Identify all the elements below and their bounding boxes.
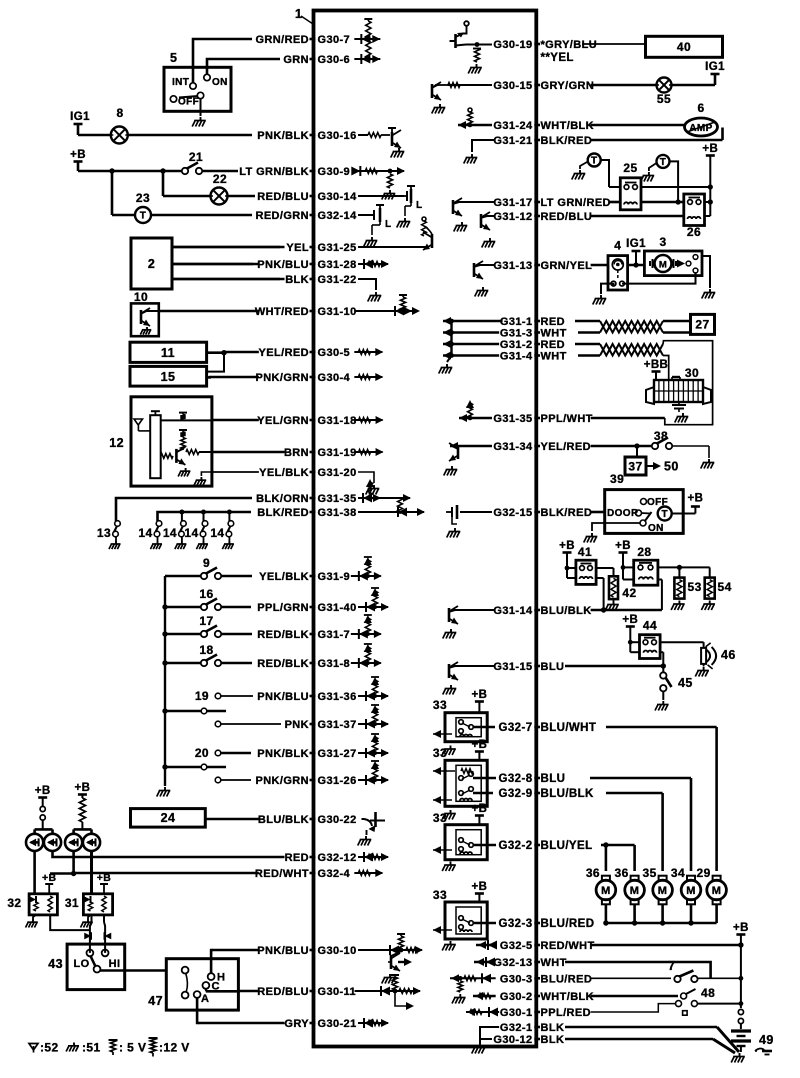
ground relay 31 [88, 915, 91, 919]
wire BLK G32-1 to battery ground [565, 1026, 717, 1029]
svg-text:WHT: WHT [541, 351, 567, 363]
wire loop to amplifier 6 [591, 139, 723, 142]
internal arrow resistor at G31-24 [458, 124, 492, 126]
svg-text:41: 41 [578, 545, 592, 559]
svg-text:4: 4 [614, 239, 621, 253]
connector box 27 [691, 314, 715, 334]
ground of unit 39 [592, 523, 605, 531]
svg-text:T: T [661, 509, 668, 520]
svg-text:G31-12: G31-12 [493, 211, 532, 223]
motor 36 [631, 876, 639, 881]
svg-text:G30-5: G30-5 [318, 347, 351, 359]
wire lamp a1 to relay 32 [33, 851, 36, 894]
svg-text:G31-14: G31-14 [493, 605, 533, 617]
svg-text:YEL/RED: YEL/RED [541, 441, 591, 453]
svg-text:G32-13: G32-13 [493, 957, 532, 969]
wire through lamp 55 to IG1 [591, 84, 657, 87]
svg-text:36: 36 [615, 866, 629, 880]
speaker 46 [701, 648, 706, 664]
sensor rod in unit 12 [150, 415, 161, 478]
legend 12V symbol [149, 1037, 158, 1039]
svg-text:M: M [630, 885, 640, 897]
internal ground at G31-20 [358, 472, 374, 483]
svg-text:G31-37: G31-37 [318, 719, 357, 731]
wire YEL/RED to pin G30-5 [224, 351, 259, 354]
svg-text:23: 23 [136, 191, 150, 205]
svg-text:GRN: GRN [283, 54, 309, 66]
svg-text:19: 19 [195, 689, 209, 703]
svg-text:PPL/RED: PPL/RED [541, 1007, 591, 1019]
wire BLK G30-12 to battery ground [565, 1038, 713, 1041]
internal diode resistors at G31-35 [358, 497, 410, 499]
twisted pair lower [575, 343, 600, 346]
svg-text:ON: ON [212, 77, 228, 88]
wire GRY to pin G30-21 [198, 1022, 285, 1025]
wire +B to switch 21 [78, 170, 182, 173]
switch 48 [681, 993, 687, 999]
svg-text:+B: +B [471, 881, 487, 893]
svg-text:WHT/BLK: WHT/BLK [541, 991, 595, 1003]
svg-text:G31-9: G31-9 [318, 571, 351, 583]
svg-text:G30-19: G30-19 [493, 39, 532, 51]
svg-text:RED/BLU: RED/BLU [257, 986, 309, 998]
wire YEL/GRN inside unit 12 [161, 419, 213, 421]
wire pin G32-7 BLU/WHT [473, 726, 495, 729]
diodes under relay 31 [91, 915, 93, 922]
relay unit 32 [29, 894, 57, 915]
switch 14 [181, 521, 187, 527]
svg-text:M: M [658, 885, 668, 897]
svg-text:RED/BLK: RED/BLK [257, 629, 309, 641]
relay 44 [640, 635, 661, 659]
svg-text:G31-21: G31-21 [493, 135, 532, 147]
svg-text:47: 47 [148, 994, 163, 1008]
svg-text:22: 22 [213, 172, 227, 186]
svg-text:BLU: BLU [541, 773, 566, 785]
inline connector at battery [738, 1009, 743, 1014]
svg-text:38: 38 [654, 429, 668, 443]
svg-text:G32-1: G32-1 [500, 1022, 533, 1034]
switch contact PNK/GRN [215, 777, 221, 783]
svg-text:RED/GRN: RED/GRN [255, 210, 309, 222]
wire 43 to 47 [100, 969, 166, 972]
motor 35 [659, 876, 667, 881]
svg-text:PNK/GRN: PNK/GRN [255, 775, 309, 787]
svg-text:T: T [660, 157, 667, 168]
svg-text:G31-20: G31-20 [318, 467, 357, 479]
svg-text:+B: +B [471, 689, 487, 701]
svg-text:39: 39 [610, 472, 624, 486]
unit 11 [130, 342, 207, 362]
svg-text:20: 20 [195, 746, 209, 760]
motor ground rail wires [605, 904, 608, 923]
svg-text:G32-3: G32-3 [499, 918, 533, 930]
switch unit 5 [164, 67, 231, 111]
battery 49 [731, 1029, 751, 1032]
svg-text:G31-19: G31-19 [318, 447, 357, 459]
switch 45 [660, 672, 666, 678]
svg-text:3: 3 [659, 235, 666, 249]
svg-text:+B: +B [471, 803, 487, 815]
wire to relay coils 41 28 [591, 609, 662, 612]
svg-text:L: L [385, 219, 392, 230]
svg-text:10: 10 [134, 290, 148, 304]
indicator lamp a1 [26, 834, 43, 851]
switch 14 [156, 521, 162, 527]
motor 34 [687, 876, 695, 881]
washer motor unit 3 [644, 251, 702, 276]
svg-text:RED: RED [541, 316, 565, 328]
lamp bracket b [74, 828, 92, 831]
wire relay 44 to speaker 46 [660, 641, 704, 643]
switch 7 [674, 976, 680, 982]
svg-text:G30-9: G30-9 [318, 166, 351, 178]
door switch unit 39 [605, 490, 684, 534]
svg-text:15: 15 [161, 370, 176, 384]
svg-text:36: 36 [586, 866, 600, 880]
internal diodes at G32-13 [474, 961, 492, 963]
svg-text:+B: +B [74, 782, 90, 794]
svg-text:33: 33 [433, 811, 447, 825]
svg-text:**YEL: **YEL [541, 52, 574, 64]
svg-text:9: 9 [203, 556, 210, 570]
wires relay 28 to resistors 53 54 [658, 566, 710, 568]
wire relay 41 coil to G31-14 [596, 577, 604, 579]
internal diode resistor at G30-3 [450, 977, 496, 979]
svg-text:G31-13: G31-13 [493, 260, 532, 272]
bulb 8 [111, 127, 128, 144]
svg-text:G30-10: G30-10 [318, 945, 357, 957]
internal transistor at G31-12 [484, 215, 495, 217]
svg-text:33: 33 [433, 746, 447, 760]
relay 41 [576, 560, 596, 584]
svg-text:BLK/ORN: BLK/ORN [256, 493, 309, 505]
svg-text:INT: INT [172, 77, 189, 88]
svg-text:G32-12: G32-12 [318, 852, 357, 864]
svg-text:G32-5: G32-5 [500, 940, 533, 952]
svg-text:6: 6 [697, 101, 704, 115]
switches 14 group feed [158, 512, 252, 521]
indicator lamp b1 [65, 834, 82, 851]
svg-text:31: 31 [65, 896, 79, 910]
svg-text:BLK/RED: BLK/RED [541, 507, 593, 519]
svg-text:G32-9: G32-9 [499, 788, 533, 800]
svg-text:BLU: BLU [541, 661, 565, 673]
svg-text:34: 34 [671, 866, 685, 880]
internal transistor at G31-15 [452, 665, 495, 667]
transistor in unit 12 [175, 449, 178, 463]
svg-text:M: M [686, 885, 696, 897]
svg-text:: 5 V: : 5 V [119, 1041, 146, 1055]
svg-text:26: 26 [687, 225, 701, 239]
mode switch unit 47 [166, 959, 238, 1010]
internal tie bar for G31 pins [450, 321, 452, 356]
svg-text:G31-15: G31-15 [493, 661, 532, 673]
svg-text:PNK/GRN: PNK/GRN [255, 372, 309, 384]
svg-text:+B: +B [97, 872, 112, 884]
amplifier 6 (AMP) [685, 118, 718, 136]
bus stub b [162, 764, 167, 769]
wire RED to pin G32-12 [55, 856, 285, 859]
svg-text:+B: +B [702, 143, 718, 155]
relay 4 contact wiring [601, 284, 614, 294]
wire C to RED/BLU [205, 989, 207, 992]
svg-text:G31-36: G31-36 [318, 691, 357, 703]
relay unit 31 [83, 894, 112, 915]
svg-text:12: 12 [109, 436, 124, 450]
ground after switch 38 [708, 459, 710, 463]
thermal switch near relay 25 [588, 154, 601, 167]
svg-text:G31-27: G31-27 [318, 748, 357, 760]
svg-text:14: 14 [138, 526, 152, 540]
svg-text:G32-7: G32-7 [499, 722, 533, 734]
switch 14 [228, 521, 234, 527]
wire to amplifier 6 [591, 124, 686, 127]
ECU control unit box 1 [314, 11, 537, 1047]
svg-text:BLU/RED: BLU/RED [541, 918, 595, 930]
svg-text:+B: +B [471, 739, 487, 751]
svg-text:G30-15: G30-15 [493, 80, 532, 92]
svg-text:RED/WHT: RED/WHT [541, 940, 595, 952]
svg-text:PNK: PNK [285, 719, 309, 731]
antenna symbol in unit 12 [134, 419, 143, 425]
relay 28 [634, 560, 658, 585]
relay 25 [620, 178, 641, 210]
svg-text:30: 30 [685, 366, 699, 380]
wire BLK to pin G31-22 [172, 278, 285, 281]
wire BRN to pin G31-19 [213, 451, 285, 454]
svg-text:+B: +B [70, 149, 86, 161]
svg-text:BLU/YEL: BLU/YEL [541, 840, 593, 852]
svg-text:16: 16 [199, 587, 213, 601]
svg-text:+BB: +BB [644, 359, 669, 371]
wire PPL/RED to switch 48 [591, 1004, 675, 1012]
svg-text:46: 46 [721, 648, 736, 662]
svg-text:8: 8 [116, 106, 123, 120]
svg-text::12 V: :12 V [159, 1041, 190, 1055]
ground for unit 3 [702, 256, 710, 288]
motor 36 [602, 876, 610, 881]
svg-text:G32-14: G32-14 [318, 210, 358, 222]
wire RED/BLU to pin G30-11 [239, 990, 259, 993]
svg-text:IG1: IG1 [626, 238, 646, 250]
svg-text:G31-4: G31-4 [500, 351, 533, 363]
internal diode at G31-38 [358, 511, 424, 513]
svg-text:GRN/YEL: GRN/YEL [541, 260, 593, 272]
svg-text:+B: +B [687, 493, 703, 505]
unit 2 [131, 238, 172, 289]
switch contact PNK [215, 721, 221, 727]
svg-text:T: T [591, 156, 598, 167]
lamp bracket a [35, 828, 53, 831]
svg-text:G31-38: G31-38 [318, 507, 357, 519]
svg-text:G30-1: G30-1 [500, 1007, 533, 1019]
svg-text:49: 49 [759, 1033, 774, 1047]
internal transistor at G31-14 [452, 609, 495, 611]
internal driver L at G30-14 [358, 195, 404, 197]
svg-text:LT GRN/BLK: LT GRN/BLK [239, 166, 309, 178]
wire YEL/BLK to pin G31-20 [213, 471, 259, 473]
svg-text:2: 2 [148, 257, 155, 271]
svg-text:+B: +B [559, 540, 575, 552]
svg-text:YEL/RED: YEL/RED [259, 347, 309, 359]
wire GRN/RED from unit 5 [193, 39, 252, 83]
internal transistor at G30-19 [466, 44, 492, 46]
svg-text:21: 21 [189, 150, 203, 164]
svg-text:A: A [201, 993, 209, 1005]
svg-text:BLK: BLK [285, 274, 309, 286]
svg-text:5: 5 [170, 51, 177, 65]
svg-text:+B: +B [42, 872, 57, 884]
svg-text:G30-21: G30-21 [318, 1018, 357, 1030]
svg-text:LT GRN/RED: LT GRN/RED [541, 197, 611, 209]
svg-text:53: 53 [688, 580, 702, 594]
svg-text:G31-8: G31-8 [318, 658, 351, 670]
svg-text:PNK/BLK: PNK/BLK [257, 130, 309, 142]
svg-text:18: 18 [199, 643, 213, 657]
svg-text:G31-18: G31-18 [318, 415, 357, 427]
wire PNK/BLU to pin G30-10 [212, 949, 259, 952]
wire YEL/GRN to pin G31-18 [213, 419, 259, 422]
ground inside ECU bottom [479, 1039, 481, 1044]
headlamp switch unit 43 [67, 944, 125, 990]
svg-text:G30-11: G30-11 [318, 986, 356, 998]
wire relay 44 coil to G31-15 [660, 651, 663, 653]
wire BLU/BLK to pin G30-22 [206, 818, 259, 821]
motor 29 [713, 876, 721, 881]
svg-text:BLU/BLK: BLU/BLK [258, 814, 309, 826]
legend 5V symbol [109, 1039, 118, 1041]
svg-text:G30-22: G30-22 [318, 814, 357, 826]
svg-text:YEL/BLK: YEL/BLK [259, 467, 309, 479]
twisted pair upper [575, 320, 600, 323]
svg-text:25: 25 [623, 161, 637, 175]
svg-text:35: 35 [643, 866, 657, 880]
svg-text:24: 24 [161, 811, 176, 825]
svg-text:YEL/GRN: YEL/GRN [257, 415, 309, 427]
svg-text:G31-35: G31-35 [493, 413, 532, 425]
wire through switch 38 [591, 445, 651, 448]
switch 38 [652, 443, 658, 449]
svg-text:G31-25: G31-25 [318, 242, 357, 254]
switch 17 [162, 631, 167, 636]
svg-text:28: 28 [637, 545, 651, 559]
svg-text:BLU/RED: BLU/RED [541, 973, 593, 985]
svg-text:13: 13 [97, 526, 111, 540]
svg-text:G31-34: G31-34 [493, 441, 533, 453]
motor group verticals [605, 845, 608, 871]
svg-text:G31-28: G31-28 [318, 259, 357, 271]
switch 13 [115, 521, 121, 527]
svg-text:G30-6: G30-6 [318, 54, 351, 66]
svg-text:BLU/BLK: BLU/BLK [541, 788, 595, 800]
wire YEL to pin G31-25 [172, 246, 285, 249]
unit 24 [131, 809, 206, 828]
switch 18 [162, 660, 167, 665]
wire WHT/RED to pin G31-10 [159, 310, 259, 313]
internal diode resistor at G31-10 [355, 310, 418, 312]
svg-text:45: 45 [678, 676, 693, 690]
wire H to PNK/BLU [211, 950, 213, 973]
wire PNK/GRN to pin G30-4 [209, 376, 259, 379]
internal diode resistor at G30-9 [354, 170, 404, 172]
internal transistor at G30-22 [361, 818, 364, 820]
svg-text:YEL: YEL [286, 242, 309, 254]
bulb 22 [162, 171, 165, 196]
wire relay 32 to LO [50, 915, 90, 930]
svg-text:+B: +B [733, 922, 749, 934]
wire to relay 26 coil [591, 215, 683, 218]
wire to relay 4 [591, 264, 608, 267]
inline connector lamps a [40, 806, 45, 811]
wire pin G32-3 BLU/RED [473, 922, 496, 925]
ignition lamp 55 [657, 78, 672, 93]
internal transistor at G31-34 [450, 445, 492, 447]
internal arrow resistor at G31-35 right [459, 417, 492, 419]
svg-text:L: L [416, 200, 423, 211]
svg-text:BLU/BLK: BLU/BLK [541, 605, 592, 617]
internal arrow at G31-4 [443, 354, 499, 356]
svg-text:WHT/BLK: WHT/BLK [541, 120, 595, 132]
internal driver at G32-15 [460, 511, 492, 513]
legend antenna symbol 52 [29, 1044, 38, 1051]
internal ground at G31-22 [358, 279, 376, 290]
box 40 [646, 36, 723, 57]
svg-text:BLK/RED: BLK/RED [541, 135, 593, 147]
svg-text:37: 37 [628, 460, 642, 474]
svg-text:M: M [712, 885, 722, 897]
svg-text:G30-16: G30-16 [318, 130, 357, 142]
resistor feed lamps b [79, 798, 85, 822]
tie wire 11 to 15 [207, 353, 224, 372]
legend ground symbol 51 [73, 1043, 75, 1046]
svg-text:54: 54 [718, 580, 732, 594]
svg-text:50: 50 [664, 460, 679, 474]
wire to relay 44 and switch 45 [565, 665, 663, 668]
svg-text:PNK/BLK: PNK/BLK [257, 748, 309, 760]
unit 37 [636, 446, 638, 457]
svg-text:RED: RED [541, 339, 565, 351]
wire to unit 40 [582, 43, 646, 45]
svg-text:40: 40 [677, 40, 691, 54]
svg-text:G32-4: G32-4 [318, 868, 351, 880]
svg-text:PPL/GRN: PPL/GRN [257, 602, 309, 614]
svg-text:+B: +B [622, 614, 638, 626]
relay 26 [684, 194, 705, 226]
svg-text:G31-1: G31-1 [500, 316, 533, 328]
svg-text:44: 44 [643, 619, 657, 633]
svg-text:PPL/WHT: PPL/WHT [541, 413, 593, 425]
svg-text:BRN: BRN [284, 447, 309, 459]
svg-text:55: 55 [657, 92, 671, 106]
internal diodes at G32-5 [476, 944, 496, 946]
indicator lamp b2 [83, 834, 100, 851]
svg-text:G30-2: G30-2 [500, 991, 533, 1003]
svg-text:M: M [601, 885, 611, 897]
svg-text:G31-35: G31-35 [318, 493, 357, 505]
svg-text:33: 33 [433, 888, 447, 902]
svg-text:DOOR: DOOR [607, 508, 639, 519]
resistor 53 [674, 578, 684, 599]
temp unit 23 [111, 171, 114, 215]
svg-text:14: 14 [210, 526, 224, 540]
svg-text::52: :52 [40, 1041, 59, 1055]
resistor 54 [705, 578, 715, 599]
svg-text:G30-4: G30-4 [318, 372, 351, 384]
svg-text:43: 43 [48, 957, 63, 971]
ground relay 32 [33, 915, 36, 919]
battery ground [739, 1053, 741, 1057]
